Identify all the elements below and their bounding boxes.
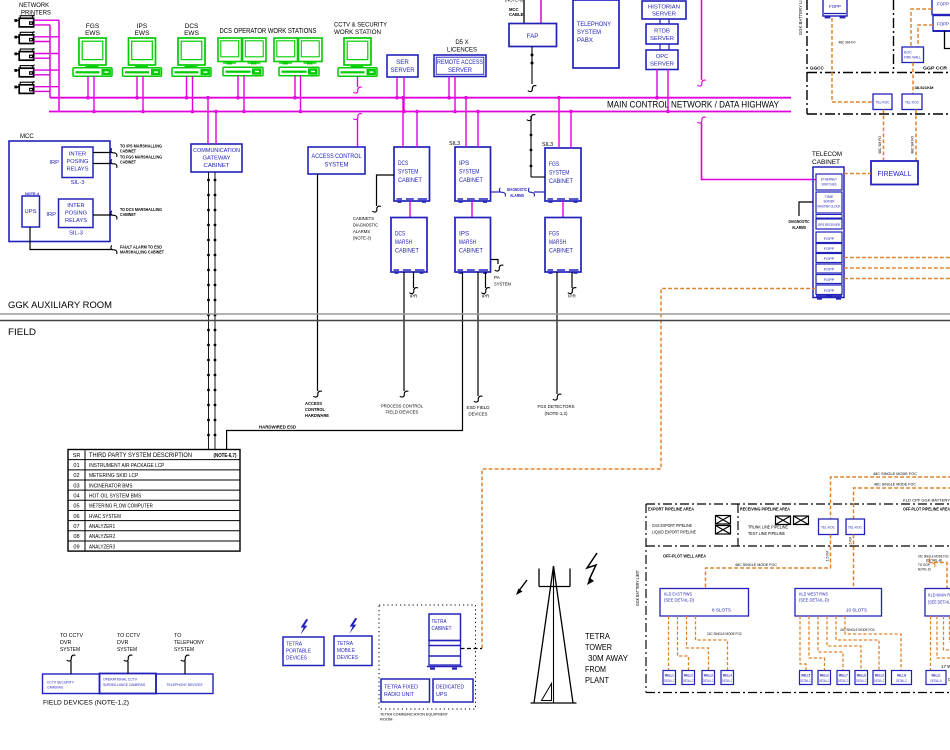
wire bus drops to FGS system cabinet <box>557 96 573 148</box>
bolt tetra mobile <box>349 618 357 634</box>
svg-text:48C SINGLE MODE FOC: 48C SINGLE MODE FOC <box>873 471 917 476</box>
wire telecom diagnostic alarms stub <box>799 202 813 216</box>
label TELECOM CABINET <box>812 151 842 166</box>
node off-plot box top border <box>646 503 950 505</box>
svg-text:PROCESS CONTROL: PROCESS CONTROL <box>381 404 423 409</box>
svg-text:IRP: IRP <box>49 160 59 166</box>
node GGCC / GGP CCR divider vertical <box>893 0 895 73</box>
label FGS DETECTORS (NOTE-1,2) <box>538 404 575 416</box>
svg-text:METERING SKID LCP: METERING SKID LCP <box>89 473 139 479</box>
box WELL5 <box>800 671 813 685</box>
symbol receiving pipeline valve 2 <box>794 516 809 525</box>
wire fiber east rws drops to wells <box>669 616 728 671</box>
svg-text:DEVICES: DEVICES <box>337 655 358 661</box>
wire DCS marsh IPR stub <box>409 272 418 294</box>
svg-text:FOPP: FOPP <box>824 237 835 241</box>
svg-text:REMOTE ACCESS: REMOTE ACCESS <box>437 59 483 66</box>
svg-text:CABINET: CABINET <box>459 177 483 184</box>
label NETWORK PRINTERS <box>19 2 51 17</box>
wire magenta feed into FAP from top <box>540 0 542 24</box>
svg-text:ALARMS: ALARMS <box>510 193 524 198</box>
svg-text:KLD EAST RWS: KLD EAST RWS <box>664 592 692 597</box>
svg-text:SIL3: SIL3 <box>542 142 553 148</box>
svg-text:DIAGNOSTIC: DIAGNOSTIC <box>789 219 811 224</box>
wire FGS system to marsh connector <box>562 201 564 218</box>
label TO DCS MARSHALLING CABINET <box>120 207 162 217</box>
box ACCESS CONTROL SYSTEM <box>308 147 365 174</box>
wire IPS marsh to ESD field devices <box>474 272 483 402</box>
wire DCS operator dual 2 drops <box>293 76 302 114</box>
svg-text:CCTV & SECURITY: CCTV & SECURITY <box>334 22 388 29</box>
svg-text:IPS: IPS <box>459 160 470 167</box>
svg-text:DETAIL-C: DETAIL-C <box>683 679 694 683</box>
wire operational CCTV to DVR <box>124 655 133 673</box>
svg-text:(SEE DETAIL: (SEE DETAIL <box>928 600 950 605</box>
svg-text:TEL-KOC: TEL-KOC <box>905 101 920 105</box>
wire CCTV security cameras to DVR <box>67 655 76 674</box>
svg-text:GGK AUXILIARY ROOM: GGK AUXILIARY ROOM <box>8 300 112 311</box>
svg-text:TRUNK LINE PIPELINE: TRUNK LINE PIPELINE <box>748 525 788 530</box>
wire printer P3 to bus trunks <box>34 54 59 59</box>
svg-text:INCINERATOR BMS: INCINERATOR BMS <box>89 483 133 489</box>
label CABINETS DIAGNOSTIC ALARMS (NOTE-3) <box>353 216 378 242</box>
box inter posing relays 1 <box>62 147 93 178</box>
telecom cabinet bottom feet <box>816 295 842 300</box>
svg-text:GGK BATTERY LIMIT: GGK BATTERY LIMIT <box>635 570 640 606</box>
svg-text:TETRA FIXED: TETRA FIXED <box>384 685 418 691</box>
wire fiber TEL-KOC A down to firewall <box>883 110 885 162</box>
svg-text:MAIN CONTROL NETWORK / DAT: MAIN CONTROL NETWORK / DATA HIGHWAY <box>607 100 779 110</box>
node off-plot box pipeline/well separator <box>646 545 950 547</box>
svg-text:ACCESS CONTROL: ACCESS CONTROL <box>312 153 362 160</box>
svg-text:DETAIL-A: DETAIL-A <box>931 679 943 683</box>
node off-plot box left border <box>645 504 647 693</box>
workstation DCS operator dual 2 <box>274 38 322 76</box>
svg-text:IPR: IPR <box>482 294 490 299</box>
svg-text:WELL5: WELL5 <box>801 674 810 678</box>
wire main bus line 1 (magenta data highway upper) <box>50 25 791 98</box>
wire FGS marsh IPR stub <box>568 272 577 294</box>
label PROCESS CONTROL FIELD DEVICES <box>381 404 423 415</box>
box REMOTE ACCESS SERVER <box>434 55 486 77</box>
svg-text:30M AWAY: 30M AWAY <box>588 654 629 663</box>
svg-text:KLD CPF GGK BATTERY: KLD CPF GGK BATTERY <box>903 498 950 503</box>
wire SER SERVER drops <box>395 77 406 113</box>
svg-text:FOPP: FOPP <box>937 2 949 7</box>
wire fiber horizontal to TEL-KOC A2 (48C) <box>831 477 950 519</box>
svg-text:SERVER: SERVER <box>391 67 415 74</box>
svg-text:WELL4: WELL4 <box>723 674 732 678</box>
svg-text:GGK BATTERY LIM: GGK BATTERY LIM <box>798 0 803 35</box>
svg-text:KLD WEST RWS: KLD WEST RWS <box>799 592 828 597</box>
wire DCS cabinets diagnostic alarms stub <box>372 175 394 212</box>
wire dashed tetra cabinet to fiber <box>461 648 483 650</box>
svg-text:DEVICES: DEVICES <box>286 656 307 662</box>
svg-text:INTER: INTER <box>67 203 84 209</box>
wire HISTORIAN to RTDB connectors <box>660 19 669 24</box>
arrow near tower <box>516 580 527 595</box>
svg-text:IPR: IPR <box>410 294 418 299</box>
svg-text:DETAIL-C: DETAIL-C <box>838 679 849 683</box>
bolt tetra portable <box>300 619 308 635</box>
svg-text:MCC: MCC <box>20 134 34 140</box>
symbol export pipeline valve 1 <box>716 516 731 525</box>
wire access control system down to field hardware <box>313 174 322 397</box>
node export/receiving divider <box>737 504 739 546</box>
svg-text:WORK STATION: WORK STATION <box>334 29 381 36</box>
bolt arrow near tower <box>587 553 597 585</box>
svg-text:WELL1: WELL1 <box>665 674 674 678</box>
svg-text:MOBILE: MOBILE <box>337 648 355 654</box>
svg-text:HOT OIL SYSTEM BMS: HOT OIL SYSTEM BMS <box>89 494 142 500</box>
workstation FGS EWS <box>73 23 112 76</box>
label ACCESS CONTROL HARDWARE <box>305 401 329 418</box>
svg-text:2.5 KM: 2.5 KM <box>849 537 853 547</box>
svg-text:38.521KM: 38.521KM <box>915 85 935 90</box>
wire UPS fault alarm to ESD marshalling <box>30 227 117 254</box>
wire fiber main rws drops <box>931 616 950 671</box>
wire IPS marsh IPR stub <box>481 272 490 294</box>
svg-text:TO GGP: TO GGP <box>918 563 930 567</box>
box TEL-KOC B (GGP) <box>902 94 922 110</box>
box FGS MARSH CABINET <box>545 218 581 274</box>
box WELL9 <box>873 671 886 685</box>
wire fiber TEL-KOC B2 down to KLD WEST RWS <box>853 535 855 589</box>
svg-text:24C SINGLE MODE FOC: 24C SINGLE MODE FOC <box>840 627 875 632</box>
wire fiber FOPP3 to right edge <box>844 257 950 259</box>
box KLD MAIN RWS <box>925 589 950 617</box>
label TO FGS MARSHALLING CABINET <box>120 155 162 165</box>
box OPC SERVER <box>646 50 678 70</box>
label 24C SINGLE MODE FOC TO CPF (top right) <box>918 555 949 563</box>
svg-text:OFF-PLOT PIPELINE AREA: OFF-PLOT PIPELINE AREA <box>903 507 950 512</box>
box IPS MARSH CABINET <box>455 218 491 274</box>
wire fiber TEL-KOC B down to firewall <box>915 110 917 162</box>
svg-text:SERVER: SERVER <box>650 36 674 42</box>
box WELL7 <box>837 671 850 685</box>
label TO CCTV DVR SYSTEM (1) <box>60 633 83 653</box>
wire fiber FOPP GGCC to TEL-KOC A <box>832 18 873 102</box>
wire DCS operator dual 1 drops <box>236 76 246 114</box>
svg-text:CAMERAS: CAMERAS <box>47 686 63 690</box>
box TELECOM CABINET enclosure <box>813 167 844 298</box>
svg-text:FOPP: FOPP <box>824 289 835 293</box>
box TETRA FIXED RADIO UNIT <box>381 679 430 702</box>
svg-text:CABINET: CABINET <box>395 248 419 255</box>
svg-text:FIRE WALL: FIRE WALL <box>904 56 921 60</box>
svg-text:FGS DETECTORS: FGS DETECTORS <box>538 404 575 409</box>
svg-text:FAP: FAP <box>527 33 539 40</box>
svg-text:GGP CCR: GGP CCR <box>923 66 948 71</box>
svg-text:SURVEILLANCE CAMERAS: SURVEILLANCE CAMERAS <box>103 683 145 687</box>
label MCC CABLE <box>509 7 524 17</box>
svg-text:DETAIL-C: DETAIL-C <box>801 679 812 683</box>
box KLD EAST RWS <box>660 589 749 617</box>
printer P1 <box>14 14 34 27</box>
svg-text:MARSH: MARSH <box>395 239 412 246</box>
label TETRA TOWER 30M AWAY FROM PLANT <box>585 632 629 685</box>
svg-text:TETRA: TETRA <box>432 619 447 625</box>
wire fiber GGP FOPP upper to KOC firewall <box>911 9 932 47</box>
svg-text:FOPP: FOPP <box>824 268 835 272</box>
svg-text:FGS: FGS <box>86 23 100 30</box>
svg-text:CABINET: CABINET <box>432 626 453 632</box>
svg-text:CABINET: CABINET <box>549 178 573 185</box>
svg-text:CABINET: CABINET <box>204 163 231 169</box>
box HISTORIAN SERVER <box>642 1 686 19</box>
svg-text:HARDWARE: HARDWARE <box>305 413 329 418</box>
node telecom room bottom border (y=114) <box>807 113 950 115</box>
printer P4 <box>14 64 34 77</box>
svg-text:SYSTEM: SYSTEM <box>398 169 418 176</box>
svg-text:SWITCHES: SWITCHES <box>822 183 837 187</box>
svg-text:DCS: DCS <box>395 231 406 238</box>
svg-text:DETAIL-C: DETAIL-C <box>722 679 733 683</box>
svg-text:D5 X: D5 X <box>455 40 468 46</box>
svg-text:02: 02 <box>73 473 79 479</box>
svg-text:10 SLOTS: 10 SLOTS <box>846 608 867 613</box>
wire CCTV workstation stub with break <box>353 76 362 93</box>
box telecom FOPP 2 <box>816 244 842 253</box>
wire bus drops to DCS system cabinet <box>401 96 419 147</box>
wire magenta from top edge with break above bus <box>697 0 706 86</box>
svg-text:SERVER: SERVER <box>824 200 835 204</box>
box WELL8 <box>855 671 868 685</box>
svg-text:(NOTE-6,7): (NOTE-6,7) <box>214 453 237 459</box>
svg-text:NETWORK: NETWORK <box>19 2 49 9</box>
svg-text:ROOM: ROOM <box>380 717 392 722</box>
box MCC enclosure <box>9 141 110 242</box>
svg-text:DETAIL-C: DETAIL-C <box>703 679 714 683</box>
box TEL-KOC A (GGCC) <box>873 94 892 110</box>
svg-text:OPC: OPC <box>656 54 669 60</box>
svg-text:MARSH: MARSH <box>459 239 476 246</box>
wire diagnostic alarms between IPS and FGS <box>491 188 546 197</box>
wire hardwired ESD from IPS marsh to table <box>227 272 463 450</box>
svg-text:TELEPHONY: TELEPHONY <box>174 640 204 646</box>
node GGCC area bottom border <box>807 72 950 74</box>
svg-text:TEL-KOC: TEL-KOC <box>848 526 863 530</box>
svg-text:09: 09 <box>73 544 79 550</box>
svg-text:RELAYS: RELAYS <box>67 167 89 173</box>
svg-text:RELAYS: RELAYS <box>65 218 87 224</box>
box WELL4 <box>721 671 734 685</box>
svg-text:TETRA: TETRA <box>337 641 353 647</box>
svg-text:LIQUID EXPORT PIPELINE: LIQUID EXPORT PIPELINE <box>652 530 696 535</box>
label FAULT ALARM TO ESD MARSHALLING CABINET <box>120 245 164 255</box>
wire fiber FOPP4 to right edge <box>844 267 950 269</box>
printer P5 <box>14 81 34 94</box>
svg-text:CABINETS: CABINETS <box>353 216 374 222</box>
svg-text:OPERATIONAL CCTV: OPERATIONAL CCTV <box>103 678 137 682</box>
svg-text:RTDB: RTDB <box>654 29 670 35</box>
svg-text:GAS EXPORT PIPELINE: GAS EXPORT PIPELINE <box>652 523 692 528</box>
box FOPP (GGP CCR upper) <box>932 0 950 15</box>
svg-text:ALARMS: ALARMS <box>792 225 806 230</box>
svg-text:24C SINGLE MODE FOC: 24C SINGLE MODE FOC <box>707 631 742 636</box>
svg-text:08: 08 <box>73 534 79 540</box>
wire IPS system to marsh connector <box>471 201 473 218</box>
svg-text:48C SM FO: 48C SM FO <box>878 136 882 154</box>
box telecom FOPP 3 <box>816 254 842 263</box>
svg-text:RECEIVING PIPELINE AREA: RECEIVING PIPELINE AREA <box>740 507 791 512</box>
wire IPS EWS drops to bus <box>135 76 145 113</box>
box FOPP (GGCC) <box>823 0 847 18</box>
svg-text:(SEE DETAIL-D): (SEE DETAIL-D) <box>799 598 829 603</box>
svg-text:48C SINGLE MODE FOC: 48C SINGLE MODE FOC <box>874 482 916 487</box>
svg-text:03: 03 <box>73 483 79 489</box>
label TETRA COMMUNICATION EQUIPMENT ROOM <box>380 712 449 722</box>
svg-text:CONTROL: CONTROL <box>305 407 325 412</box>
svg-text:SIL3: SIL3 <box>449 141 460 147</box>
box TETRA PORTABLE DEVICES <box>283 637 324 666</box>
svg-text:DETAIL-C: DETAIL-C <box>664 679 675 683</box>
box WELL6 <box>818 671 831 685</box>
label TO IPS MARSHALLING CABINET <box>120 144 162 154</box>
wire FGS EWS drops to bus <box>86 76 96 113</box>
svg-text:DETAIL-C: DETAIL-C <box>856 679 867 683</box>
svg-text:ESD FIELD: ESD FIELD <box>467 405 491 410</box>
box GPS receiver <box>816 219 842 229</box>
svg-text:DETAIL-C: DETAIL-C <box>819 679 830 683</box>
label D5 X LICENCES <box>447 40 477 54</box>
svg-text:DEVICES: DEVICES <box>469 412 488 417</box>
svg-text:TO CCTV: TO CCTV <box>117 633 140 639</box>
svg-text:PLANT: PLANT <box>585 676 609 685</box>
wire gateway cabinet bead line 1 down to third party table <box>208 172 210 450</box>
label DIAGNOSTIC ALARMS (telecom) <box>789 219 811 230</box>
svg-text:DVR: DVR <box>117 640 128 646</box>
svg-text:INSTRUMENT AIR PACKAGE LCP: INSTRUMENT AIR PACKAGE LCP <box>89 463 165 469</box>
svg-text:ACCESS: ACCESS <box>305 401 322 406</box>
svg-text:(NOTE-9): (NOTE-9) <box>505 0 524 3</box>
svg-text:PA: PA <box>494 275 501 280</box>
svg-text:POSING: POSING <box>65 211 87 217</box>
tetra tower <box>531 566 577 703</box>
label TO GGP NOTE-10 <box>918 563 931 572</box>
svg-text:WELL10: WELL10 <box>897 674 906 678</box>
svg-text:ALARMS: ALARMS <box>353 229 370 235</box>
box telephony devices <box>156 674 213 694</box>
wire bus to gateway cabinet drop 1 <box>206 96 210 144</box>
box FOPP (GGP CCR lower) <box>933 16 950 32</box>
svg-text:GGCC: GGCC <box>810 66 824 71</box>
wire fiber FOPP6 left and down to tetra room <box>482 289 816 649</box>
wire DCS EWS drops to bus <box>185 76 195 113</box>
svg-text:04: 04 <box>73 494 79 500</box>
svg-text:SIL-3: SIL-3 <box>71 180 85 186</box>
svg-text:MARSHALLING CABINET: MARSHALLING CABINET <box>120 250 164 255</box>
svg-text:WELL8: WELL8 <box>857 674 866 678</box>
svg-text:WELL9: WELL9 <box>875 674 884 678</box>
workstation DCS EWS <box>172 23 211 76</box>
box WELL10 <box>892 671 912 685</box>
printer P2 <box>14 31 34 44</box>
svg-text:HVAC SYSTEM: HVAC SYSTEM <box>89 514 121 520</box>
svg-text:GATEWAY: GATEWAY <box>203 156 231 162</box>
box KLD WEST RWS <box>795 589 882 617</box>
box tetra communication equipment room (dotted) <box>379 605 476 709</box>
wire DCS system to marsh connector <box>409 201 411 218</box>
svg-text:MASTER CLOCK: MASTER CLOCK <box>818 205 841 209</box>
svg-text:KLD MAIN R: KLD MAIN R <box>928 593 950 598</box>
svg-text:GPS RECEIVER: GPS RECEIVER <box>818 223 840 227</box>
svg-text:WELL6: WELL6 <box>820 674 829 678</box>
svg-text:WELL3: WELL3 <box>704 674 713 678</box>
box DCS SYSTEM CABINET <box>394 147 430 203</box>
wire black from GGP FOPP lower to right edge <box>945 31 950 49</box>
wire fiber KOC firewall down to TEL-KOC B <box>912 63 914 95</box>
svg-text:SYSTEM: SYSTEM <box>325 162 349 169</box>
wire break continue down to access control system <box>353 114 362 147</box>
svg-text:COMMUNICATION: COMMUNICATION <box>193 148 240 154</box>
svg-text:OFF-PLOT WELL AREA: OFF-PLOT WELL AREA <box>663 554 707 559</box>
wire fiber telecom to firewall <box>844 173 871 175</box>
svg-text:MARSH: MARSH <box>549 239 566 246</box>
svg-text:FIELD DEVICES: FIELD DEVICES <box>386 410 419 415</box>
svg-text:SYSTEM: SYSTEM <box>174 647 194 653</box>
wire fiber TEL-KOC A2 down to KLD EAST RWS <box>706 535 831 589</box>
svg-text:DVR: DVR <box>60 640 71 646</box>
box TETRA CABINET <box>429 614 461 641</box>
svg-text:NOTE-10: NOTE-10 <box>918 568 931 572</box>
box telecom FOPP 6 <box>816 285 842 295</box>
svg-text:TETRA: TETRA <box>286 642 302 648</box>
svg-text:WELL11: WELL11 <box>932 674 941 678</box>
svg-text:IPS: IPS <box>137 23 148 30</box>
wire beaded line from bus into FGS cabinet left <box>527 115 545 177</box>
label GAS EXPORT PIPELINE / LIQUID EXPORT PIPELINE <box>652 523 696 535</box>
svg-text:FROM: FROM <box>585 665 606 674</box>
box DCS MARSH CABINET <box>391 218 427 274</box>
node off-plot box bottom border <box>646 692 950 694</box>
svg-text:1.5 KM: 1.5 KM <box>826 551 830 561</box>
svg-text:(SEE DETAIL-D): (SEE DETAIL-D) <box>664 598 694 603</box>
box TEL-KOC B2 (pipeline) <box>846 519 865 535</box>
svg-text:TELEPHONY DEVICES: TELEPHONY DEVICES <box>167 683 203 687</box>
box operational CCTV surveillance cameras <box>100 674 157 694</box>
svg-text:UPS: UPS <box>436 692 447 698</box>
printer P3 <box>14 48 34 61</box>
svg-text:CABINET: CABINET <box>549 248 573 255</box>
node room divider lower line <box>0 320 950 322</box>
svg-text:TO: TO <box>174 633 181 639</box>
svg-text:TEL-KOC: TEL-KOC <box>876 101 891 105</box>
wire MCC cable into FAP <box>523 0 525 24</box>
svg-text:SERVER: SERVER <box>652 12 676 18</box>
workstation IPS EWS <box>123 23 162 76</box>
svg-text:ANALYZER1: ANALYZER1 <box>89 524 115 530</box>
svg-text:EXPORT PIPELINE AREA: EXPORT PIPELINE AREA <box>648 507 695 512</box>
svg-text:SERVER: SERVER <box>650 62 674 68</box>
box TETRA MOBILE DEVICES <box>334 636 372 666</box>
wire IRP1 to IPS marshalling <box>93 148 117 157</box>
label ESD FIELD DEVICES <box>467 405 491 417</box>
svg-text:06: 06 <box>73 514 79 520</box>
svg-text:TELEPHONY: TELEPHONY <box>577 21 612 28</box>
box CCTV security cameras <box>43 674 100 694</box>
svg-text:CABLE: CABLE <box>509 12 524 17</box>
svg-text:DETAIL-C: DETAIL-C <box>896 679 908 683</box>
wire bus drops to IPS system cabinet <box>464 96 480 147</box>
svg-text:FGS: FGS <box>549 161 560 168</box>
table third party systems <box>68 450 240 552</box>
svg-text:07: 07 <box>73 524 79 530</box>
svg-text:PORTABLE: PORTABLE <box>286 649 311 655</box>
svg-text:ANALYZER3: ANALYZER3 <box>89 544 115 550</box>
svg-text:CABINET: CABINET <box>398 177 422 184</box>
svg-text:IPR: IPR <box>568 294 576 299</box>
